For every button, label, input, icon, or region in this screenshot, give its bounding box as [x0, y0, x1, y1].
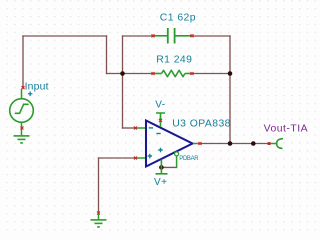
output terminal Vout lead	[271, 143, 277, 145]
svg-text:PDBAR: PDBAR	[179, 156, 199, 162]
pin mark op-amp inverting input	[134, 127, 137, 130]
wire C1 left	[123, 35, 154, 37]
svg-text:V-: V-	[155, 99, 165, 110]
op-amp inverting input lead	[137, 127, 146, 129]
capacitor C1 left lead	[153, 35, 167, 37]
op-amp edge plus sign	[148, 154, 152, 158]
node junction V+ PDBAR	[159, 165, 164, 170]
pin mark R1 right	[191, 72, 194, 75]
capacitor C1 right lead	[175, 35, 192, 37]
op-amp inner plus sign	[158, 148, 162, 152]
op-amp output lead	[193, 143, 200, 145]
node junction feedback right at output	[228, 141, 233, 146]
label plus of source	[28, 92, 33, 97]
wire feedback left vertical	[122, 36, 124, 128]
wire input dogleg vertical	[106, 36, 108, 74]
op-amp U1 triangle	[146, 121, 193, 167]
ground below source bar2	[18, 138, 26, 140]
op-amp noninverting input lead	[137, 157, 146, 159]
wire output	[200, 143, 270, 145]
svg-text:Vout-TIA: Vout-TIA	[264, 124, 308, 135]
wire R1 right	[192, 73, 230, 75]
wire R1 left	[123, 73, 154, 75]
pin mark R1 left	[152, 72, 155, 75]
pin mark V- lead	[159, 119, 162, 122]
wire inverting input	[123, 127, 137, 129]
voltage source ramp symbol	[15, 104, 28, 113]
voltage source top lead	[21, 89, 23, 99]
pin mark op-amp noninverting input	[134, 157, 137, 160]
node junction feedback right at R1	[228, 71, 233, 76]
wire PDBAR to V+	[161, 166, 176, 168]
wire C1 right	[192, 35, 230, 37]
svg-text:R1 249: R1 249	[156, 54, 192, 65]
wire noninverting input vertical to ground	[98, 158, 100, 213]
node junction on output wire	[251, 141, 256, 146]
ground below source bar3	[20, 142, 23, 144]
wire input dogleg horizontal	[107, 73, 123, 75]
wire input vertical left	[22, 36, 24, 88]
voltage source VG1 circle	[10, 99, 34, 123]
node junction at summing node	[120, 71, 125, 76]
ground noninverting bar3	[97, 226, 100, 228]
output terminal arc	[277, 139, 283, 149]
capacitor C1 right plate	[174, 28, 176, 44]
capacitor C1 left plate	[167, 28, 169, 44]
pin mark source top	[22, 86, 25, 89]
V- supply T bar	[156, 113, 165, 127]
resistor R1 left lead	[153, 73, 162, 75]
op-amp inner minus sign	[156, 133, 160, 135]
PDBAR pin circle	[175, 152, 179, 156]
svg-text:U3 OPA838: U3 OPA838	[172, 118, 231, 129]
svg-text:C1 62p: C1 62p	[160, 13, 196, 24]
pin mark ground noninverting	[97, 212, 100, 215]
wire noninverting input horizontal	[99, 157, 137, 159]
ground noninverting bar1	[91, 219, 107, 221]
resistor R1 right lead	[185, 73, 192, 75]
resistor R1 zigzag	[162, 70, 185, 76]
pin mark C1 left	[152, 34, 155, 37]
ground noninverting bar2	[95, 222, 103, 224]
voltage source bottom lead	[21, 122, 23, 135]
PDBAR pin lead	[176, 156, 178, 167]
pin mark C1 right	[191, 34, 194, 37]
pin mark op-amp output	[199, 142, 202, 145]
wire input top horizontal	[23, 35, 107, 37]
pin mark source bottom / ground	[21, 127, 24, 130]
svg-text:V+: V+	[154, 177, 167, 188]
ground below source bar1	[14, 135, 30, 137]
pin mark output terminal	[268, 142, 271, 145]
V+ supply T bar	[156, 160, 168, 174]
ground below noninverting input lead	[98, 214, 100, 219]
wire feedback right vertical	[229, 36, 231, 144]
op-amp edge minus sign	[149, 127, 153, 129]
svg-text:Input: Input	[25, 81, 49, 92]
